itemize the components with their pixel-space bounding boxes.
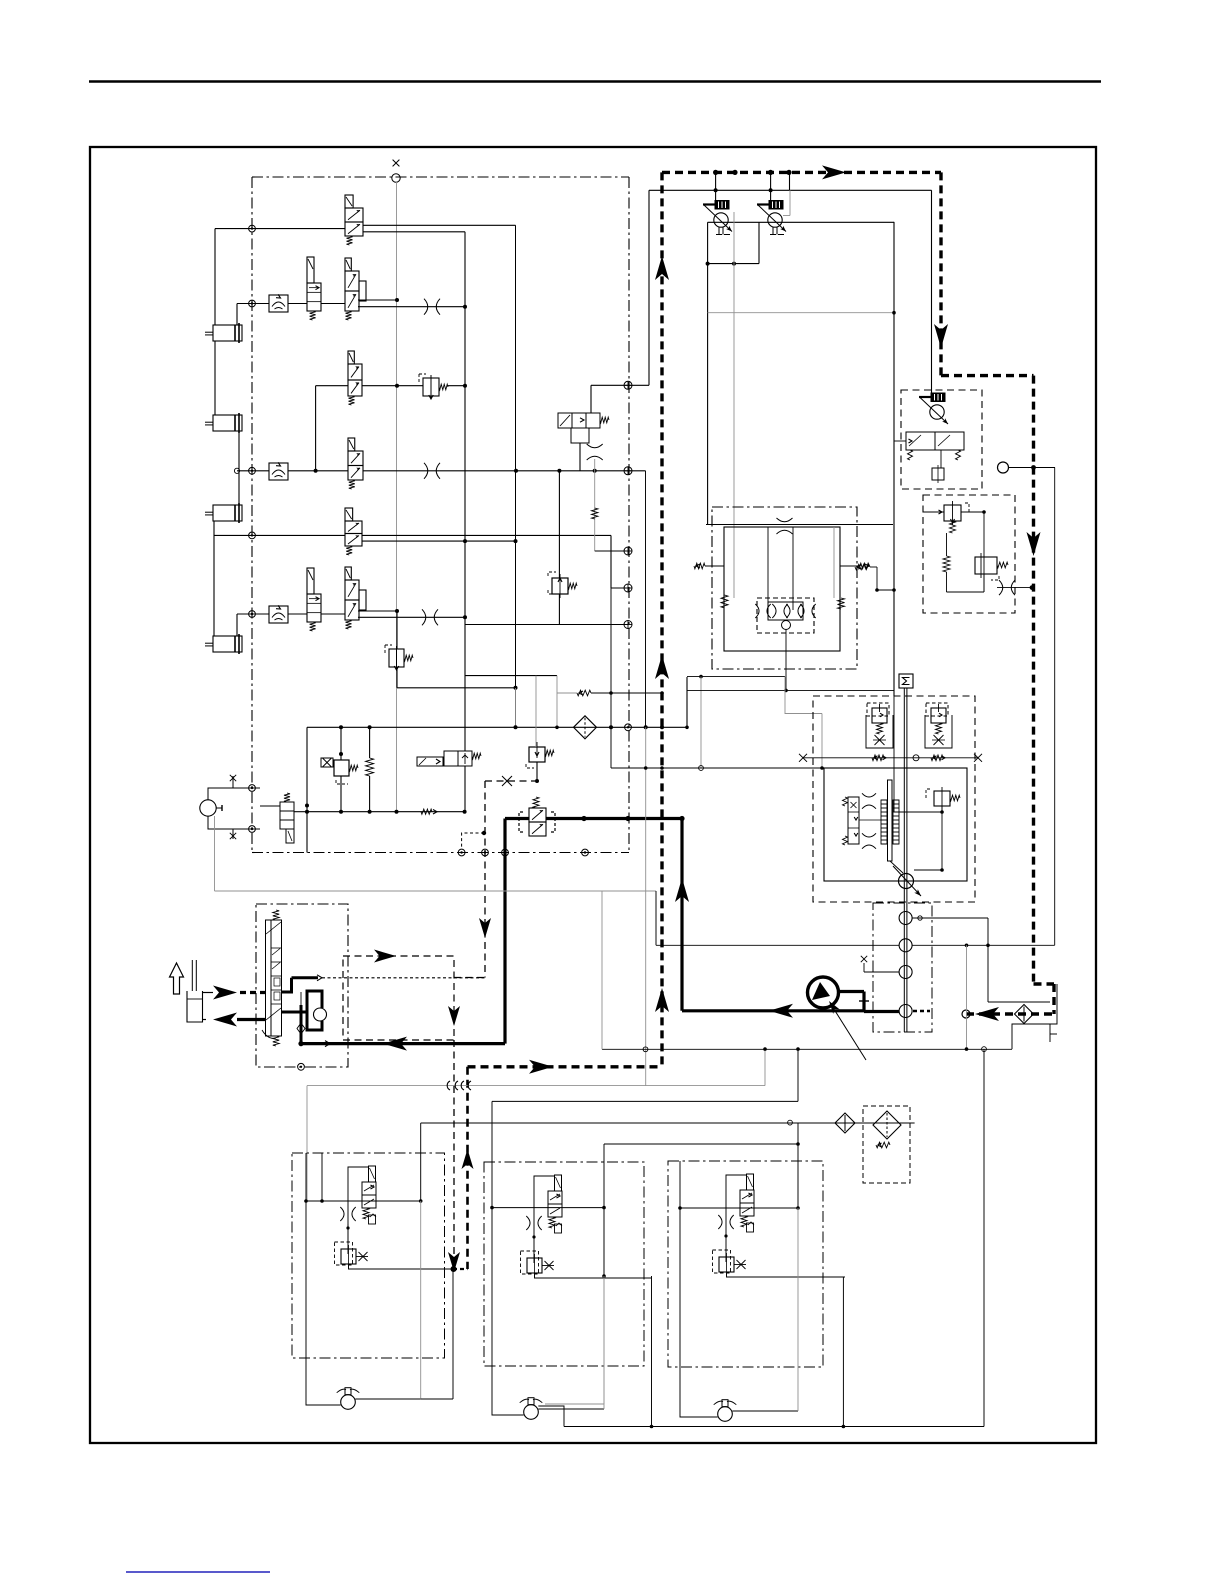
wire y812 branch	[894, 811, 942, 813]
pilot relief K dash	[336, 780, 348, 784]
arrow return left	[383, 1037, 407, 1051]
regulator relief	[932, 465, 944, 483]
junction on pilot dash	[1030, 585, 1035, 590]
stair y551	[595, 550, 629, 552]
wire reg to pump	[914, 869, 942, 871]
filter diamond on return	[1015, 1005, 1034, 1024]
junction	[555, 726, 559, 730]
pilot dashed jog y375	[941, 374, 1034, 377]
wire y677	[687, 676, 785, 678]
travel block boundary	[712, 507, 857, 669]
thick hand loop c	[307, 1012, 322, 1030]
hand block bottom ports	[298, 1063, 305, 1070]
travel motor block C relief valve	[719, 1253, 734, 1276]
junction	[940, 868, 944, 872]
port circle on boundary x505	[502, 849, 509, 856]
thick feed to gp4	[864, 1010, 899, 1013]
junction	[644, 725, 648, 729]
regulator valve body	[906, 432, 964, 450]
pilot valve G	[307, 568, 321, 631]
swash hatch R	[893, 800, 899, 844]
regulator tower R zigarrow	[931, 755, 945, 761]
block C relief drop	[842, 1277, 844, 1427]
port circle on boundary x485	[482, 849, 489, 856]
travel motor block C relief out	[727, 1272, 846, 1277]
accumulator spring column	[366, 758, 374, 776]
junction	[395, 609, 399, 613]
junction	[660, 691, 664, 695]
travel motor block C solenoid valve body	[740, 1190, 754, 1216]
block A junction	[320, 1199, 324, 1203]
thick main return y1043	[301, 1042, 505, 1045]
filter box (dashed)	[863, 1106, 910, 1183]
port circle end	[962, 1010, 970, 1018]
crossing circle on boundary	[624, 621, 632, 629]
wire row2 right lower	[358, 306, 465, 308]
solenoid valve L spring	[472, 753, 481, 759]
wire y693 right	[591, 692, 662, 694]
arrow on dashed x485	[479, 918, 491, 938]
wire supply y768	[611, 767, 824, 769]
hollow arrow up	[170, 963, 184, 994]
junction	[395, 384, 399, 388]
pilot dashed right x941	[939, 172, 942, 375]
pilot dashed top y172	[662, 171, 941, 174]
pump regulator spring	[950, 795, 960, 801]
travel motor block B relief valve	[527, 1254, 542, 1277]
wire regulator drop	[941, 806, 943, 870]
inner gray 1	[733, 597, 735, 599]
wire cyl3 to cyl4	[213, 521, 215, 636]
open arrow on y1043	[325, 1041, 330, 1047]
thick supply wire left	[505, 817, 529, 820]
regulator tower R spring	[936, 723, 942, 734]
arrow pilot down y556	[1027, 532, 1041, 556]
cooler bypass steps	[1012, 984, 1057, 1049]
wire cyl4 feed	[236, 614, 238, 636]
crossing circle on boundary	[624, 584, 632, 592]
check-spring symbol	[421, 809, 437, 814]
pilot valve D	[348, 351, 362, 405]
junction on pilot dash2	[1031, 465, 1036, 470]
inner vertical 1	[767, 527, 769, 610]
center manifold dashed box	[757, 598, 814, 633]
pilot relief K body	[334, 760, 349, 776]
crossing circle on boundary	[624, 467, 632, 475]
wire x687	[686, 677, 688, 727]
travel motor block B relief drop	[533, 1208, 535, 1263]
block A relief link	[452, 1269, 454, 1399]
left spring	[721, 595, 728, 608]
travel motor block B junction3	[532, 1235, 535, 1238]
port ring y1123	[788, 1120, 793, 1125]
travel motor block B motor right wire	[538, 1408, 604, 1410]
shaft crossing circle	[913, 755, 919, 761]
wire gray y312	[708, 312, 894, 314]
wire row1 left	[215, 228, 345, 230]
swash springs	[843, 797, 848, 845]
travel motor block B valve loop	[534, 1176, 555, 1208]
wire relief R2 down	[983, 574, 985, 592]
center cushions	[755, 604, 815, 618]
regulator tower L dashed box	[867, 703, 889, 716]
pilot bus y727	[307, 726, 687, 728]
wire row3 right	[362, 385, 423, 387]
regulator solenoid	[931, 393, 945, 402]
tank stub top	[203, 992, 214, 994]
travel motor block A left port riser	[305, 1153, 307, 1201]
junction	[514, 539, 518, 543]
wire y1002	[988, 1001, 1050, 1003]
pilot valve C	[345, 258, 366, 320]
travel motor block B motor	[520, 1398, 543, 1420]
thick hand loop a	[282, 978, 292, 992]
junction	[593, 469, 597, 473]
prop valve Vb lever	[757, 205, 786, 232]
relief J body	[552, 578, 568, 594]
wire accu bottom	[369, 776, 371, 812]
cushion y587	[999, 580, 1015, 595]
wire riser x602	[601, 891, 603, 1049]
gear pump 3	[899, 966, 912, 979]
prop valve Vb solenoid	[769, 201, 783, 210]
swing pilot dashed box	[343, 956, 454, 1040]
port circle loop top	[249, 785, 256, 792]
wire x591	[590, 385, 592, 413]
junction	[706, 262, 710, 266]
wire cyl2 to cyl3	[238, 431, 240, 505]
junction	[892, 588, 896, 592]
travel motor block B left port riser	[491, 1162, 493, 1208]
wire row2 right upper	[358, 299, 397, 301]
travel motor block A solenoid valve pilot	[369, 1166, 376, 1182]
arrow x467 up	[462, 1149, 474, 1169]
travel motor block B solenoid valve pilot	[555, 1175, 562, 1191]
junction	[650, 1425, 654, 1429]
travel motor block C left port riser	[679, 1161, 681, 1208]
filter bypass zig	[876, 1142, 890, 1148]
junction	[660, 766, 664, 770]
wire valve N down	[536, 762, 538, 781]
gray hook Vb	[783, 190, 790, 215]
reducing valve E2	[419, 374, 448, 399]
regulator tower L valve	[872, 704, 887, 723]
junction	[768, 170, 773, 175]
tank stub bottom	[203, 1019, 207, 1021]
pilot valve H	[345, 567, 366, 629]
wire row1 right upper	[363, 224, 516, 226]
arrow x454 down2	[448, 1252, 460, 1272]
wire cyl1 feed left	[214, 229, 216, 325]
arrow pilot up y1012	[655, 988, 669, 1012]
travel motor block A junction2	[419, 1199, 423, 1203]
pump leader line	[829, 1001, 866, 1060]
hand valve M	[280, 793, 294, 843]
reducing valve N body	[529, 747, 545, 762]
cylinder C3	[205, 503, 242, 523]
wire gray x536	[535, 676, 537, 747]
wire regulator down	[940, 450, 942, 468]
thick supply wire right	[546, 817, 682, 820]
junction	[463, 384, 467, 388]
arrow pilot down y348	[934, 324, 948, 348]
block B feed wire x604	[603, 1144, 605, 1276]
wire row3 left	[316, 385, 348, 387]
travel motor block A junction3	[346, 1226, 349, 1229]
arrow into hand valve	[213, 986, 237, 1000]
swash valve stack	[848, 797, 859, 844]
junction	[339, 725, 343, 729]
wire y624	[465, 624, 628, 626]
pilot valve B	[307, 257, 321, 320]
plug X left	[799, 754, 807, 762]
wire gray x785	[784, 677, 786, 714]
block B gray tail	[545, 1276, 604, 1404]
thick main supply y1011	[682, 1009, 864, 1012]
tank breather pipes	[192, 960, 196, 991]
thick hand loop b	[282, 991, 323, 1012]
wire Vb pilot	[770, 172, 772, 200]
wire center down	[785, 630, 787, 691]
junction	[965, 944, 969, 948]
port circle on boundary x629	[625, 724, 632, 731]
pilot relief valve I	[385, 645, 413, 670]
port circle on boundary row4	[249, 467, 256, 474]
travel motor block A valve loop	[348, 1167, 369, 1201]
travel motor block A feed line	[306, 1200, 421, 1202]
thick x301 drop	[300, 1005, 303, 1044]
wire gp2 line	[656, 944, 899, 946]
travel motor block A relief throttle	[356, 1252, 368, 1261]
wire x701 gray	[700, 677, 702, 768]
pump group box (dashed)	[813, 696, 975, 902]
travel motor block C relief drop	[725, 1208, 727, 1262]
main pump circle	[899, 874, 914, 889]
wire bus y1123	[421, 1122, 915, 1124]
pilot relief K xbox	[321, 758, 333, 767]
plug X right	[974, 754, 982, 762]
arrow pilot left y1014	[975, 1007, 999, 1021]
travel motor block A motor right wire	[355, 1398, 420, 1400]
regulator circle	[930, 405, 944, 419]
travel motor block A relief drop	[347, 1201, 349, 1254]
hand valve arrows	[266, 922, 281, 1020]
wire row6 right lower	[358, 616, 465, 618]
junction	[339, 810, 343, 814]
arrow pilot up y677	[655, 655, 669, 679]
wire x307 down	[306, 727, 308, 852]
pilot valve F	[345, 508, 362, 555]
wire row1 right lower	[363, 231, 465, 233]
travel motor block C feed line	[680, 1207, 798, 1209]
wire row5 right lower	[362, 540, 516, 542]
travel motor block A relief out	[349, 1264, 454, 1269]
travel block housing	[724, 527, 840, 651]
gray x307 drop	[306, 1086, 308, 1201]
return bus y1101	[492, 1100, 798, 1102]
arrow y1066 right	[529, 1060, 553, 1074]
travel motor block C solenoid valve pilot	[747, 1174, 754, 1190]
center manifold inner	[768, 602, 803, 620]
travel motor block C boundary box	[668, 1161, 823, 1367]
arrow supply up	[675, 878, 689, 902]
gauge circle	[998, 462, 1009, 473]
port ring y1049	[643, 1047, 648, 1052]
tick on pump outlet	[859, 1000, 869, 1002]
center inner arcs	[772, 604, 801, 618]
travel motor block B feed line	[492, 1207, 604, 1209]
block C junction	[796, 1142, 800, 1146]
junction	[784, 689, 788, 693]
thick return from hand valve	[237, 1018, 266, 1021]
travel motor block C relief dashed box	[713, 1250, 731, 1273]
prop valve Va port	[716, 227, 730, 235]
test port circle	[392, 174, 400, 182]
wire x557 gray	[556, 676, 558, 728]
wire y675	[465, 675, 557, 677]
travel motor block A solenoid valve body	[362, 1182, 376, 1208]
junction	[965, 1047, 969, 1051]
wire cushion	[997, 587, 1032, 589]
travel motor block A valve spring	[363, 1208, 376, 1224]
travel motor block C junction2	[796, 1206, 800, 1210]
junction	[685, 726, 689, 730]
pilot valve E	[348, 438, 363, 489]
pilot relief K spring	[349, 765, 358, 771]
pilot group boundary right edge	[628, 177, 630, 853]
junction	[395, 810, 399, 814]
wire gauge	[1009, 467, 1056, 469]
hand valve spool stack	[271, 920, 282, 1036]
travel motor block A motor left wire	[306, 1201, 341, 1405]
regulator valve arrows	[908, 435, 961, 460]
arrow pilot up y268	[655, 256, 669, 280]
junction	[786, 170, 791, 175]
wire Vb out	[708, 222, 759, 263]
wire cyl1 to cyl2	[214, 341, 216, 415]
junction	[368, 810, 372, 814]
junction	[482, 831, 486, 835]
filter diamond big	[873, 1111, 901, 1139]
wire x1055	[1054, 468, 1056, 946]
summation box	[899, 674, 913, 688]
port circle on boundary row1	[249, 225, 256, 232]
pump suction circle (bold)	[808, 977, 839, 1008]
wire y590	[877, 589, 894, 591]
pilot dashed elbow y984	[1034, 982, 1055, 985]
wire x515 riser	[515, 225, 517, 727]
junction	[305, 804, 309, 808]
pump regulator dash	[926, 789, 930, 798]
port circle on boundary x461	[458, 849, 465, 856]
wire x465 through valve	[464, 766, 466, 812]
wire gray y714	[785, 713, 822, 715]
swash lever	[888, 780, 893, 861]
travel motor block C motor	[714, 1400, 737, 1422]
pressure switch Q	[558, 413, 609, 428]
pilot feed bus y811	[307, 811, 465, 813]
pilot dashed x454	[453, 1040, 455, 1269]
junction	[463, 615, 467, 619]
travel motor block C cushion	[718, 1215, 733, 1229]
swash diag	[890, 861, 903, 873]
wire row4 right	[363, 470, 646, 472]
stair y588	[611, 587, 629, 589]
block B port riser ext	[491, 1101, 493, 1162]
cushion top center	[777, 518, 793, 534]
relief J arrow	[558, 574, 562, 598]
junction	[451, 1266, 457, 1272]
wire x420 drop	[420, 1123, 422, 1201]
travel motor block B boundary box	[484, 1162, 644, 1366]
wire x645 upper	[645, 471, 647, 728]
hand valve boundary box	[256, 904, 348, 1067]
cylinder C1	[205, 323, 242, 343]
junction	[940, 810, 944, 814]
swash hatch L	[881, 800, 887, 844]
thick dashed return y1066	[468, 1065, 663, 1068]
center circle	[782, 621, 791, 630]
regulator lever	[919, 397, 948, 424]
travel motor block C motor right wire	[732, 1410, 798, 1412]
solenoid valve L marks	[419, 758, 440, 765]
wire housing left x707	[707, 222, 709, 524]
small circle x701	[699, 766, 704, 771]
shutoff valve P spring top	[533, 797, 539, 808]
gear pump 2	[899, 939, 912, 952]
stair x611	[610, 535, 612, 588]
prop valve Va solenoid	[715, 201, 729, 210]
schematic border frame	[90, 147, 1096, 1443]
PR valve spring below	[950, 521, 956, 533]
wire relief J top	[558, 471, 560, 578]
spring on gray x594	[592, 508, 598, 519]
arrow pilot right	[822, 165, 846, 179]
inner vertical 2	[792, 527, 794, 610]
block B junction	[602, 1274, 606, 1278]
wire y385 stub	[591, 384, 649, 386]
junction	[557, 469, 561, 473]
hand pump circle	[200, 800, 222, 816]
wire x656	[655, 891, 657, 945]
solenoid valve L body	[444, 751, 472, 766]
pilot dashed right x1033	[1032, 376, 1035, 984]
travel motor block B solenoid valve body	[548, 1191, 562, 1217]
travel motor block C valve spring	[741, 1216, 754, 1232]
return riser x798	[797, 1049, 799, 1101]
regulator box (dashed)	[901, 390, 982, 489]
hand valve sections	[271, 948, 282, 1004]
wire row3 right2	[448, 385, 465, 387]
travel motor block C right gray drop	[797, 1208, 799, 1411]
travel motor block B cushion	[526, 1216, 541, 1230]
flow control F1	[269, 294, 288, 312]
wire x984	[983, 512, 985, 592]
reducing valve N dash	[526, 764, 534, 768]
wire top center	[648, 190, 650, 385]
case drain stub (thick dash)	[913, 1010, 930, 1013]
PR dash	[965, 503, 969, 512]
wire row4	[237, 470, 269, 472]
junction	[625, 816, 630, 821]
flow control F3	[269, 605, 288, 623]
wire gp2 right	[912, 944, 1055, 946]
travel motor block C relief throttle	[734, 1260, 746, 1269]
junction	[769, 188, 773, 192]
orifice row2	[424, 299, 440, 315]
right spring	[838, 598, 845, 609]
gray x966 riser	[966, 945, 968, 1049]
